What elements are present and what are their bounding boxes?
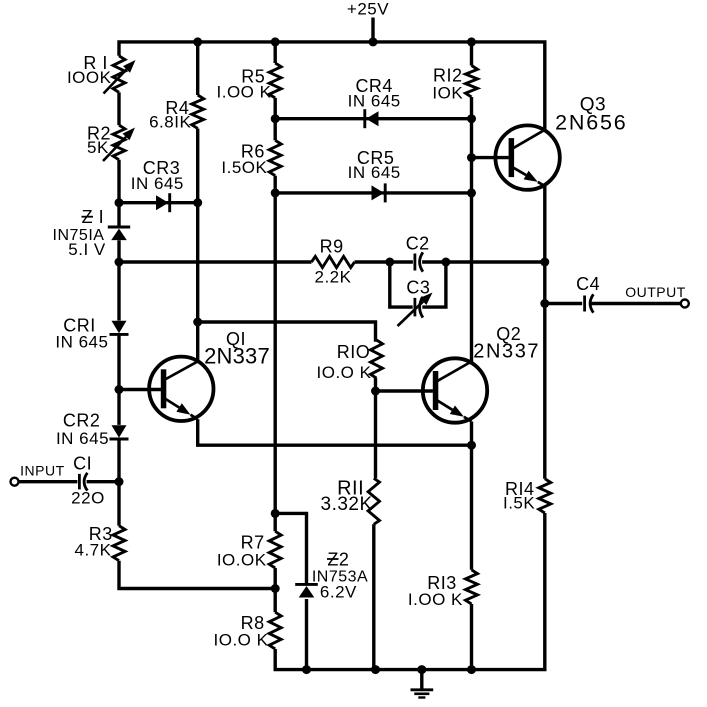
wire +25V stub <box>371 18 374 42</box>
svg-text:IN 645: IN 645 <box>348 163 401 182</box>
svg-text:I.5OK: I.5OK <box>221 158 267 177</box>
label OUTPUT <box>625 284 686 300</box>
label C1 <box>73 453 92 473</box>
resistor R1 (variable) <box>104 56 136 94</box>
wire R4 column R4 to CR3 node <box>196 129 199 203</box>
wire C4 line node to cap <box>545 302 582 305</box>
wire C3 loop <box>390 262 446 307</box>
node R11 bottom junction <box>371 665 380 674</box>
diode CR5 <box>372 183 386 202</box>
label R11 value 3.32K <box>321 494 373 515</box>
wire Q1 collector riser <box>196 322 199 361</box>
wire R7 top node to Z2 corner <box>275 513 306 584</box>
label R6 <box>241 141 265 161</box>
label R8 <box>241 613 265 633</box>
label Z2 <box>327 550 349 570</box>
svg-text:22O: 22O <box>71 489 105 508</box>
wire C1 to node <box>87 480 119 483</box>
resistor R6 <box>269 140 281 175</box>
transistor Q2 <box>423 358 487 422</box>
wire R11 to bottom rail <box>372 524 375 669</box>
label R3 value 4.7K <box>75 541 112 560</box>
node top rail junction at R12 column <box>467 37 476 46</box>
wire left column Z1 to CR1 segment <box>117 240 120 320</box>
node CR3 left junction <box>115 198 124 207</box>
wire Q1 base line <box>119 388 161 391</box>
node Q1 collector junction <box>193 318 202 327</box>
node C1 junction <box>115 477 124 486</box>
wire Q3 base node to CR5 node <box>470 158 473 193</box>
transistor Q3 <box>495 125 559 189</box>
label CR1 <box>63 316 96 336</box>
wire CR5 line <box>275 191 471 194</box>
svg-text:2N337: 2N337 <box>204 344 270 369</box>
label R14 value 1.5K <box>503 494 535 513</box>
svg-text:3.32K: 3.32K <box>321 494 373 515</box>
node Q3 base junction <box>467 153 476 162</box>
node input terminal <box>11 478 19 486</box>
svg-text:IOOK: IOOK <box>67 68 112 87</box>
label CR2 value IN645 <box>56 429 109 448</box>
label R9 value 2.2K <box>315 267 352 286</box>
svg-text:5.I V: 5.I V <box>68 240 106 259</box>
label C3 <box>406 277 430 297</box>
svg-text:IN 645: IN 645 <box>55 332 108 351</box>
svg-text:CR2: CR2 <box>63 411 101 431</box>
label R2 <box>87 124 111 144</box>
label R10 value 10.0K <box>317 363 372 382</box>
wire C2 right node to Q3 emitter node <box>446 260 545 263</box>
label R14 <box>505 479 535 499</box>
resistor R7 <box>269 531 281 568</box>
svg-text:IN 645: IN 645 <box>56 429 109 448</box>
label CR3 <box>143 158 181 178</box>
wire CR4 node to Q3 base node <box>470 119 473 158</box>
label CR2 <box>63 411 101 431</box>
label CR4 value IN645 <box>348 92 401 111</box>
svg-text:+25V: +25V <box>347 0 389 19</box>
node CR3 right junction <box>193 198 202 207</box>
label R10 <box>337 342 371 362</box>
wire R12 column rail to R12 <box>470 42 473 66</box>
wire C2 node to C4 node <box>543 262 546 304</box>
label C1 value 220 <box>71 489 105 508</box>
label C4 <box>576 274 600 294</box>
svg-text:C3: C3 <box>406 277 430 297</box>
wire Z2 to bottom rail <box>305 599 308 670</box>
resistor R8 <box>269 612 281 649</box>
svg-text:IO.O K: IO.O K <box>214 631 269 650</box>
svg-text:IO.O K: IO.O K <box>317 363 372 382</box>
node CR5 right junction <box>467 188 476 197</box>
wire Q1 collector node line to R10 corner <box>198 322 376 342</box>
node CR4 right junction <box>467 114 476 123</box>
label R11 <box>337 478 364 500</box>
wire R12 to CR4 node <box>470 97 473 119</box>
wire Q2 base node down to R11 <box>374 391 377 478</box>
wire CR3 line <box>119 201 198 204</box>
wire left column R2 to CR3 node <box>117 160 120 203</box>
node Z1-R9 junction <box>115 258 124 267</box>
diode CR2 <box>110 425 129 439</box>
node R7 top junction <box>271 509 280 518</box>
label CR5 <box>357 148 395 168</box>
svg-text:OUTPUT: OUTPUT <box>625 284 686 300</box>
resistor R9 <box>312 256 355 267</box>
wire R7 node to R7 <box>274 513 277 531</box>
node Q1 base junction <box>115 385 124 394</box>
svg-text:C4: C4 <box>576 274 600 294</box>
node C4 junction <box>540 299 549 308</box>
wire R4 column rail to R4 <box>196 42 199 95</box>
capacitor C3 (variable) <box>398 293 433 327</box>
node Z2 bottom junction <box>302 665 311 674</box>
diode CR4 <box>365 109 379 128</box>
wire left column R3 bottom corner to R7 node <box>119 561 275 589</box>
diode CR1 <box>110 321 129 335</box>
label R8 value 10.0K <box>214 631 269 650</box>
label Q2 <box>496 324 521 344</box>
resistor R11 <box>368 478 379 524</box>
svg-text:R9: R9 <box>320 236 344 256</box>
svg-text:C2: C2 <box>406 234 430 254</box>
label INPUT <box>20 462 65 478</box>
svg-text:2N656: 2N656 <box>555 111 627 135</box>
svg-text:2N337: 2N337 <box>473 341 540 363</box>
node C2 left junction <box>385 258 394 267</box>
zener Z2 <box>295 584 318 597</box>
label R3 <box>89 524 113 544</box>
svg-text:I.5K: I.5K <box>503 494 535 513</box>
capacitor C2 <box>415 252 423 271</box>
wire Q1 emitter drop with corner to emitter rail <box>198 419 472 445</box>
wire CR4 line <box>275 117 471 120</box>
wire R6 to CR5 node <box>274 176 277 193</box>
node C2 right junction <box>441 258 450 267</box>
label R7 value 10.0K <box>217 551 267 570</box>
wire CR4 node to R6 <box>274 119 277 141</box>
label R13 <box>427 573 457 593</box>
node top rail junction at R5 column <box>271 37 280 46</box>
label CR5 value IN645 <box>348 163 401 182</box>
label Z1 <box>82 207 105 227</box>
label +25V <box>347 0 389 19</box>
svg-text:6.2V: 6.2V <box>320 583 357 602</box>
svg-text:IO.OK: IO.OK <box>217 551 267 570</box>
resistor R3 <box>113 526 125 561</box>
wire R10 to Q2 base node <box>374 378 377 391</box>
svg-text:IN 645: IN 645 <box>131 174 184 193</box>
wire R3 node to R8 <box>274 589 277 613</box>
node R3-R7 junction <box>271 584 280 593</box>
label Z2 value 6.2V <box>320 583 357 602</box>
wire left column CR2 to C1 node <box>117 439 120 482</box>
wire C2 to right node <box>422 260 446 263</box>
wire input to C1 <box>18 480 77 483</box>
node top rail junction at R4 column <box>193 37 202 46</box>
node +25V junction <box>369 37 378 46</box>
label R5 value 1.00K <box>217 82 272 101</box>
wire R9 line resistor to C2 node <box>355 260 390 263</box>
svg-text:IN 645: IN 645 <box>348 92 401 111</box>
ground <box>411 670 434 698</box>
node CR5 left junction <box>271 188 280 197</box>
node Q2 emitter junction <box>467 441 476 450</box>
label R4 value 6.81K <box>149 113 191 132</box>
label Z2 value IN753A <box>312 569 368 586</box>
label R12 value 10K <box>432 84 463 103</box>
resistor R4 <box>192 95 204 129</box>
capacitor C4 <box>585 294 594 312</box>
node ground junction <box>417 665 426 674</box>
label Q1 part 2N337 <box>204 344 270 369</box>
wire C4 cap to output terminal <box>591 302 680 305</box>
svg-text:RIO: RIO <box>337 342 371 362</box>
capacitor C1 <box>79 473 87 491</box>
wire left column Q1-base node to CR2 <box>117 390 120 425</box>
svg-text:INPUT: INPUT <box>20 462 65 478</box>
label C2 <box>406 234 430 254</box>
label R12 <box>433 65 463 85</box>
wire Q2 emitter drop <box>470 422 473 446</box>
svg-text:RI2: RI2 <box>433 65 463 85</box>
label Q3 part 2N656 <box>555 111 627 135</box>
svg-text:I.OO K: I.OO K <box>408 590 463 609</box>
wire C4 node down to R14 <box>543 304 546 479</box>
label Q2 part 2N337 <box>473 341 540 363</box>
label R13 value 1.00K <box>408 590 463 609</box>
svg-text:5K: 5K <box>87 138 109 157</box>
label R1 value 100K <box>67 68 112 87</box>
node R10-Q2 base junction <box>371 387 380 396</box>
node CR4 left junction <box>271 114 280 123</box>
wire Q2 emitter node down to R13 <box>470 445 473 570</box>
resistor R2 (variable) <box>103 125 135 161</box>
label Z1 value 5.1V <box>68 240 106 259</box>
label R9 <box>320 236 344 256</box>
label R7 <box>241 533 265 553</box>
label R2 value 5K <box>87 138 109 157</box>
resistor R12 <box>466 66 478 98</box>
svg-text:6.8IK: 6.8IK <box>149 113 191 132</box>
wire R4 column CR3 node to Q1 collector node <box>196 203 199 322</box>
label Q1 <box>226 329 246 349</box>
zener Z1 <box>108 227 130 240</box>
label Q3 <box>580 94 606 115</box>
resistor R10 <box>371 340 383 378</box>
wire R5 to CR4 node <box>274 98 277 119</box>
label R6 value 1.50K <box>221 158 267 177</box>
node output terminal <box>681 300 689 308</box>
resistor R14 <box>539 479 551 513</box>
wire R7 to R3 node <box>274 568 277 589</box>
label CR1 value IN645 <box>55 332 108 351</box>
label Z1 value IN751A <box>53 227 105 244</box>
svg-text:IOK: IOK <box>432 84 463 103</box>
resistor R13 <box>466 570 478 604</box>
label CR4 <box>355 76 393 96</box>
wire Q3 base line <box>472 156 509 159</box>
wire R9 line left of resistor <box>119 260 312 263</box>
wire R13 to bottom rail <box>470 604 473 670</box>
svg-text:2.2K: 2.2K <box>315 267 352 286</box>
transistor Q1 <box>149 357 213 421</box>
label CR3 value IN645 <box>131 174 184 193</box>
wire Q2 base line <box>376 389 433 392</box>
wire left column C1 node to R3 <box>117 482 120 526</box>
node R13 bottom junction <box>467 665 476 674</box>
wire CR5 node down to Q2 collector <box>470 193 473 362</box>
wire Q3 emitter drop to C2 node <box>543 186 546 262</box>
diode CR3 <box>156 193 170 212</box>
svg-text:4.7K: 4.7K <box>75 541 112 560</box>
wire left column R1 to R2 segment <box>117 92 120 125</box>
label R5 <box>241 66 265 86</box>
resistor R5 <box>269 63 281 98</box>
svg-text:CI: CI <box>73 453 92 473</box>
wire R8 to bottom rail corner <box>275 513 545 670</box>
wire top rail with corners down left and right <box>119 42 545 130</box>
wire left column CR1 to Q1-base node <box>117 335 120 390</box>
wire R6 column CR5 node down to R7 node <box>274 193 277 513</box>
node Q3 emitter junction <box>540 258 549 267</box>
svg-text:I.OO K: I.OO K <box>217 82 272 101</box>
label R1 <box>83 53 108 73</box>
wire R5 column rail to R5 <box>274 42 277 63</box>
wire left column CR3 node to Z1 <box>117 203 120 227</box>
label R4 <box>165 98 189 118</box>
wire C2 node to C2 <box>390 260 413 263</box>
